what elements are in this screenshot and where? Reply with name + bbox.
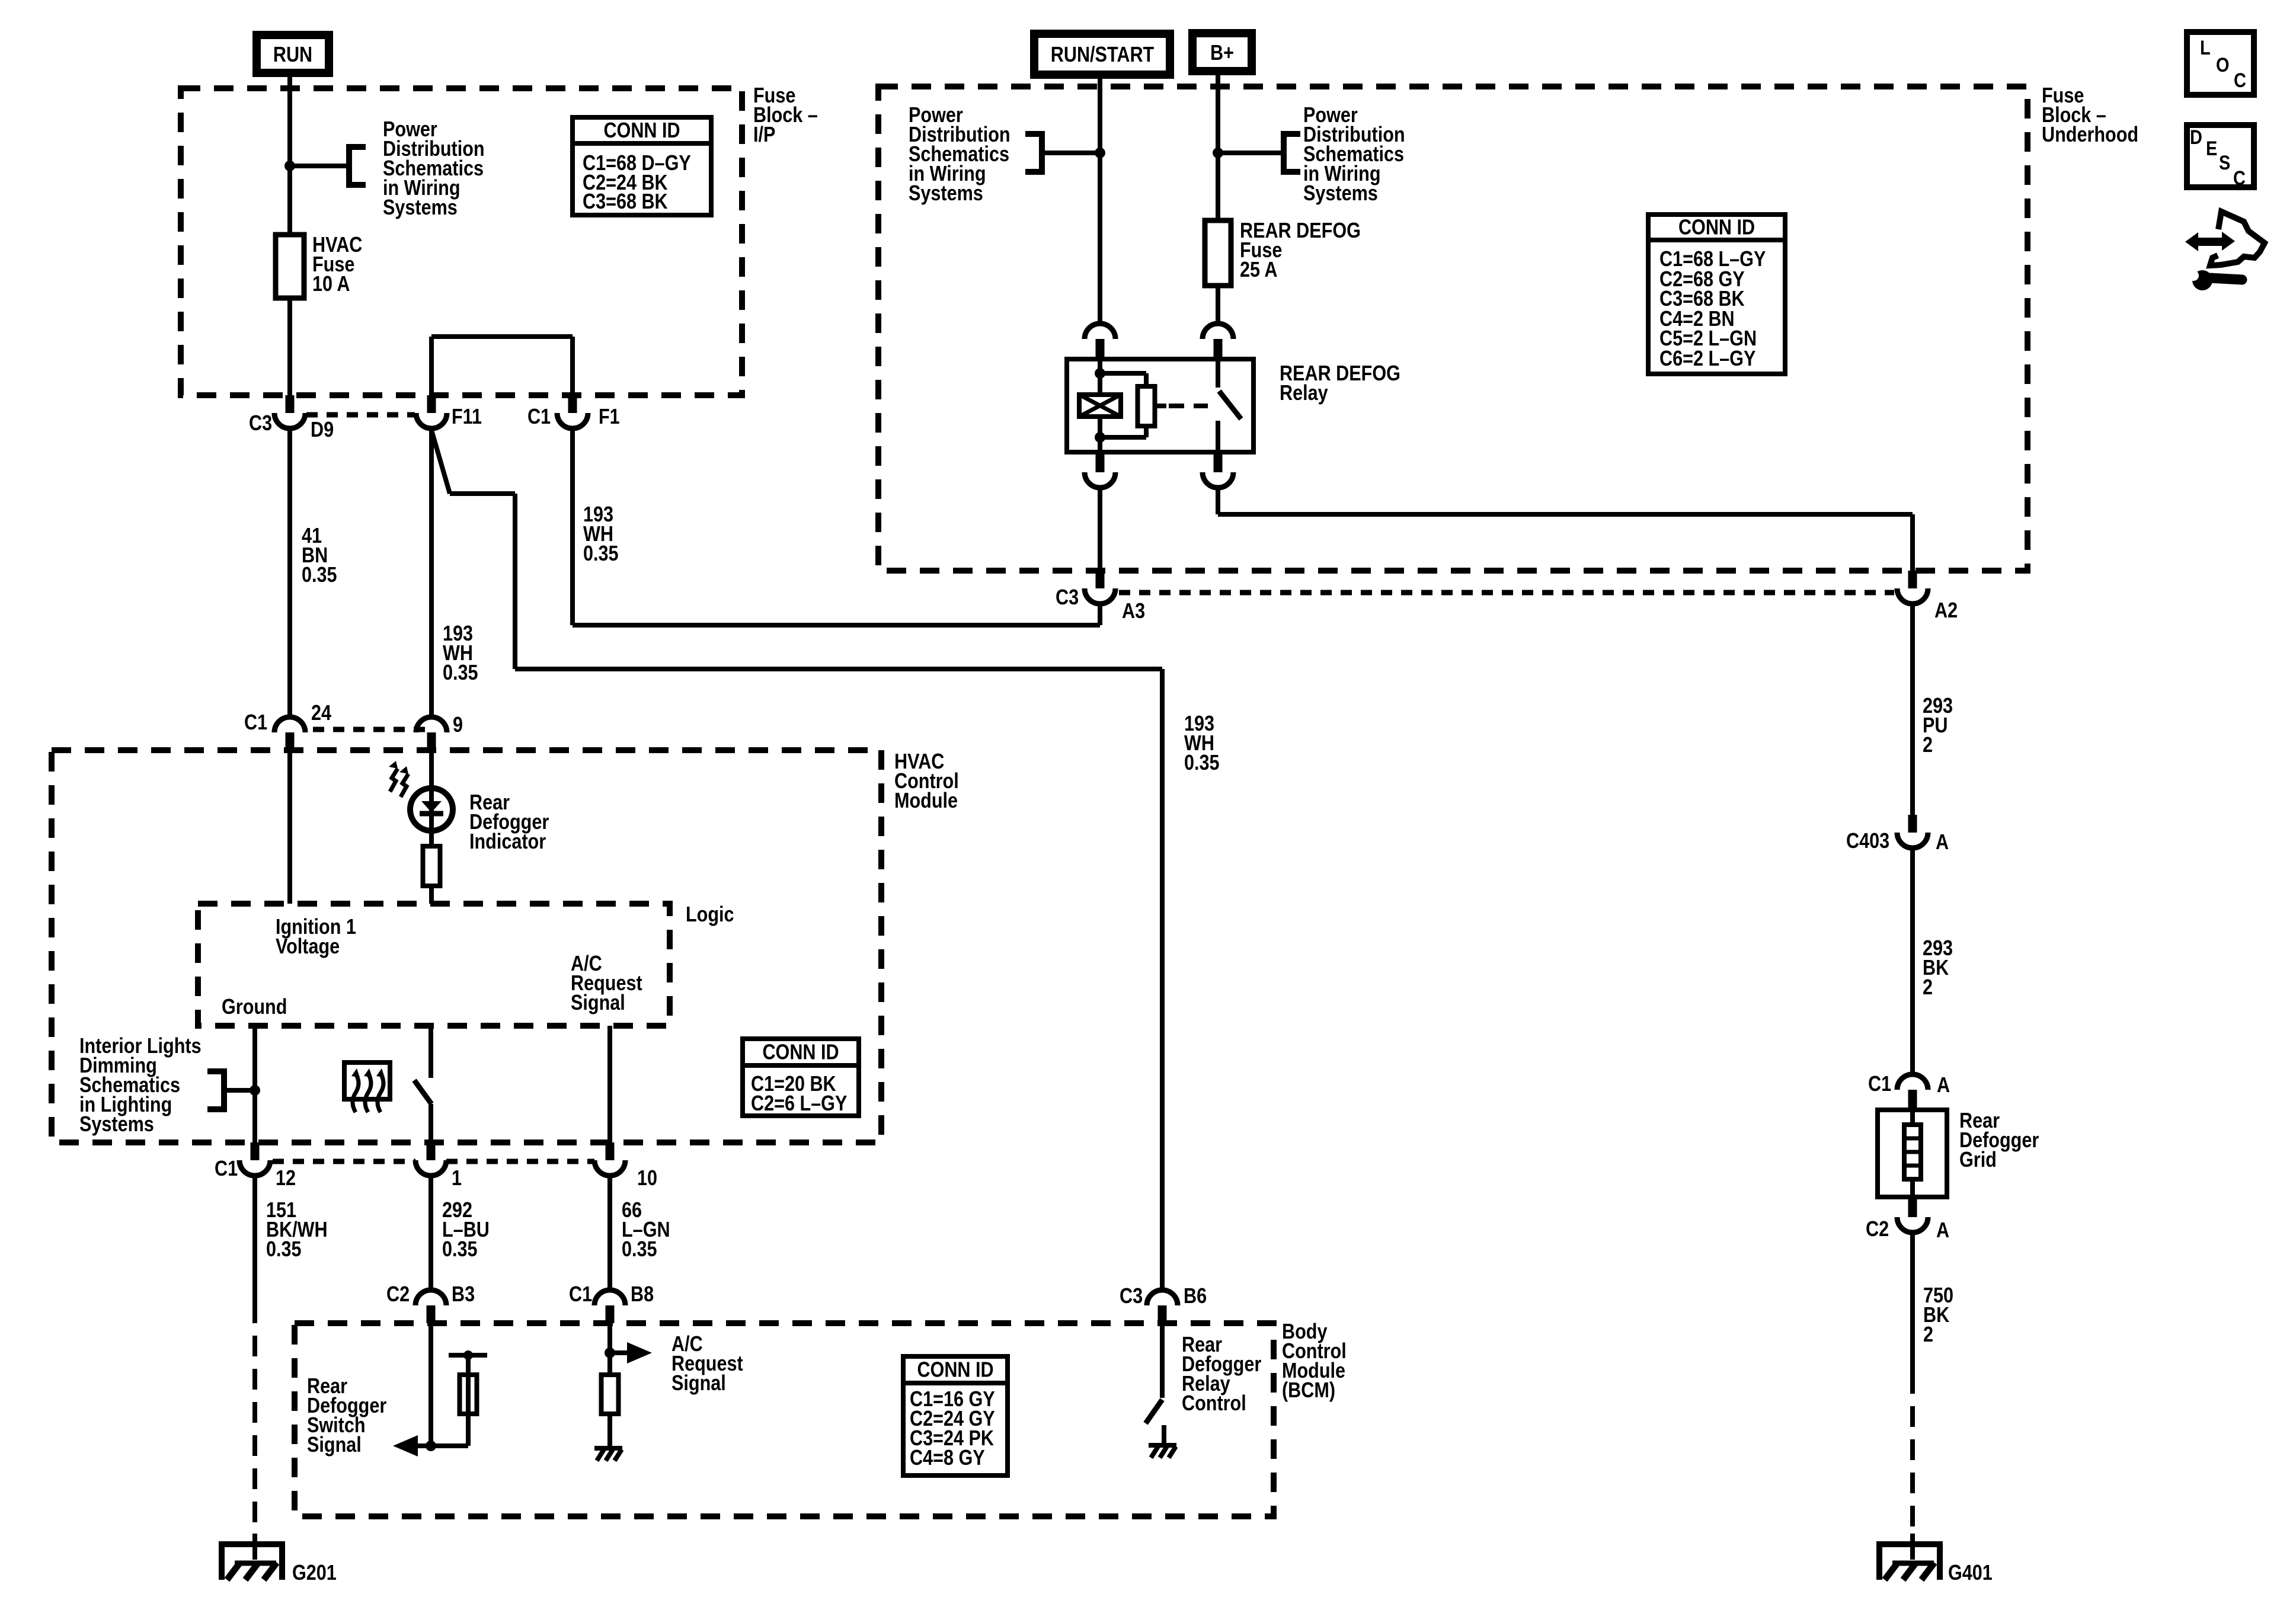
rear defogger grid box [1878, 1110, 1947, 1197]
connector C3 B6 [1147, 1290, 1178, 1305]
svg-text:C4=8 GY: C4=8 GY [910, 1446, 985, 1470]
node junction RUN/START feed [1095, 148, 1105, 158]
wire below A3 to horizontal [1098, 603, 1102, 625]
conn id table I/P [573, 117, 711, 215]
wire pin 9 to indicator [429, 750, 434, 846]
svg-text:(BCM): (BCM) [1282, 1379, 1335, 1403]
wire 292 L-BU pin 1 to B3 [428, 1176, 433, 1290]
fuse HVAC Fuse 10 A [276, 235, 304, 298]
relay REAR DEFOG Relay box [1067, 359, 1253, 452]
arrow switch signal to left [407, 1443, 431, 1448]
svg-text:CONN ID: CONN ID [603, 119, 680, 143]
svg-text:C1: C1 [569, 1283, 592, 1307]
svg-text:12: 12 [276, 1167, 296, 1190]
ground G201 [219, 1541, 284, 1547]
node switch signal junction [426, 1441, 436, 1451]
arrow A/C request to right [610, 1350, 632, 1355]
wire B3 to switch signal node [428, 1323, 433, 1446]
power feed box RUN [257, 35, 329, 73]
svg-text:RUN/START: RUN/START [1051, 43, 1155, 67]
conn id table HVAC [743, 1039, 859, 1116]
connector 10 [606, 1142, 615, 1160]
svg-text:0.35: 0.35 [302, 564, 337, 587]
svg-text:L: L [2200, 36, 2211, 59]
relay socket connector switch bottom [1214, 454, 1223, 472]
svg-text:CONN ID: CONN ID [762, 1041, 839, 1064]
wire resistor to logic box [429, 886, 434, 904]
chassis ground B8 [594, 1446, 622, 1451]
connector C1 F1 [568, 395, 577, 413]
connector C3 A3 [1096, 571, 1105, 588]
svg-text:B3: B3 [452, 1283, 475, 1307]
resistor indicator dropping [423, 846, 440, 886]
svg-text:C403: C403 [1846, 830, 1889, 853]
svg-text:E: E [2206, 137, 2217, 160]
connector C2 B3 [415, 1290, 446, 1305]
svg-text:C3: C3 [1120, 1285, 1143, 1308]
wire relay switch to A2 [1216, 488, 1220, 514]
svg-text:B+: B+ [1210, 41, 1234, 65]
svg-text:A3: A3 [1122, 600, 1145, 623]
switch rear defogger relay control [1160, 1323, 1165, 1398]
conn id table BCM [903, 1356, 1008, 1475]
wire junction to HVAC fuse [287, 166, 292, 235]
dotted connector line 24-9 [313, 727, 426, 732]
indicator diode triangle [421, 801, 442, 812]
svg-text:Systems: Systems [1303, 182, 1378, 206]
svg-text:C3: C3 [249, 412, 272, 436]
dotted connector line D9-F11 [306, 412, 415, 418]
wire ground from logic box [252, 1026, 257, 1142]
svg-text:O: O [2216, 53, 2229, 76]
svg-text:1: 1 [452, 1167, 462, 1190]
svg-text:B6: B6 [1184, 1285, 1207, 1308]
connector A2 [1908, 571, 1917, 588]
power feed box RUN/START [1034, 34, 1170, 75]
node junction on RUN feed [284, 161, 295, 171]
svg-text:CONN ID: CONN ID [1678, 216, 1755, 239]
svg-text:A: A [1936, 831, 1949, 854]
indicator diode bar [420, 811, 443, 817]
svg-text:10 A: 10 A [312, 273, 350, 296]
wire pin 24 to logic box [287, 750, 292, 904]
pull-up branch B3 [431, 1443, 468, 1448]
grid element resistor [1910, 1108, 1915, 1125]
fuse block I/P dashed box [181, 88, 742, 395]
relay socket connector coil bottom [1096, 454, 1105, 472]
svg-text:C2=6 L–GY: C2=6 L–GY [751, 1092, 847, 1116]
wire resistor to chassis ground B8 [607, 1414, 612, 1447]
svg-text:Signal: Signal [307, 1433, 362, 1457]
node relay coil top junction [1095, 368, 1105, 379]
svg-text:I/P: I/P [753, 123, 775, 147]
svg-text:Voltage: Voltage [276, 935, 340, 959]
connector 1 [427, 1142, 436, 1160]
svg-text:C1: C1 [527, 405, 551, 429]
svg-text:G201: G201 [292, 1561, 337, 1585]
wire fuse to relay switch [1216, 286, 1220, 324]
wire 293 BK C403 to grid C1 [1910, 848, 1915, 1074]
svg-text:0.35: 0.35 [266, 1238, 302, 1262]
svg-text:C1: C1 [244, 711, 267, 735]
wire A/C request logic to pin 10 [607, 1026, 612, 1142]
HVAC control module dashed box [52, 750, 881, 1142]
svg-text:Module: Module [894, 789, 958, 813]
node ground junction [250, 1085, 260, 1096]
off-page stub to Power Distribution (I/P) [290, 164, 347, 168]
connector C1 A grid [1897, 1074, 1928, 1090]
node relay coil bottom junction [1095, 432, 1105, 443]
wire relay coil to A3 [1098, 488, 1102, 571]
svg-text:D9: D9 [311, 418, 334, 442]
wire B+ to REAR DEFOG fuse [1216, 75, 1220, 220]
relay coil winding symbol [1079, 395, 1121, 417]
resistor pull-down B8 [607, 1353, 612, 1375]
wire 193 WH F1 to A3 [570, 428, 575, 625]
svg-text:A: A [1936, 1219, 1949, 1243]
power feed box B+ [1192, 33, 1252, 71]
svg-text:C2: C2 [386, 1283, 410, 1307]
icon DESC box [2187, 125, 2254, 187]
svg-text:D: D [2190, 126, 2202, 149]
dotted connector line A3-A2 [1119, 590, 1894, 596]
svg-text:9: 9 [453, 713, 463, 737]
heater icon box [344, 1062, 390, 1099]
svg-text:Grid: Grid [1959, 1148, 1997, 1172]
svg-text:S: S [2219, 151, 2230, 174]
connector C1 B8 [594, 1290, 625, 1305]
off-page stub Power Distribution right [1218, 151, 1281, 155]
svg-text:F1: F1 [599, 405, 620, 429]
wire 151 BK/WH to G201 [252, 1176, 257, 1323]
icon wrench and arrows [2185, 212, 2265, 265]
svg-text:24: 24 [311, 702, 331, 725]
connector C1 24 [274, 717, 305, 732]
svg-text:Signal: Signal [571, 991, 625, 1015]
svg-text:Systems: Systems [909, 182, 983, 206]
svg-text:RUN: RUN [273, 43, 312, 67]
wire RUN to junction [287, 77, 292, 166]
svg-text:F11: F11 [452, 405, 482, 429]
fuse block underhood dashed box [878, 87, 2028, 571]
svg-text:C6=2 L–GY: C6=2 L–GY [1659, 347, 1755, 371]
relay socket connector coil top [1085, 324, 1115, 339]
svg-text:A2: A2 [1934, 599, 1958, 623]
svg-text:Systems: Systems [383, 196, 458, 220]
wire RUN/START to relay coil [1098, 79, 1102, 324]
svg-text:0.35: 0.35 [1184, 751, 1220, 775]
svg-text:G401: G401 [1948, 1561, 1993, 1585]
ground G401 [1877, 1541, 1942, 1547]
svg-text:Systems: Systems [79, 1113, 154, 1137]
svg-text:Underhood: Underhood [2042, 123, 2138, 147]
relay parallel resistor branch [1100, 371, 1146, 376]
body control module dashed box [295, 1323, 1274, 1516]
wire 41 BN circuit D9 to pin 24 [287, 428, 292, 717]
svg-text:Indicator: Indicator [469, 830, 546, 854]
svg-text:0.35: 0.35 [583, 542, 619, 566]
resistor pull-up B3 [460, 1375, 477, 1414]
svg-text:A: A [1937, 1074, 1950, 1097]
connector F11 [427, 395, 436, 413]
svg-text:B8: B8 [631, 1283, 654, 1307]
fuse REAR DEFOG Fuse 25 A [1205, 220, 1231, 286]
relay coil wire top [1098, 357, 1102, 395]
svg-text:2: 2 [1923, 976, 1933, 1000]
svg-text:0.35: 0.35 [442, 1238, 478, 1262]
svg-text:2: 2 [1923, 734, 1933, 757]
svg-text:0.35: 0.35 [443, 661, 478, 685]
heater icon waves [351, 1068, 385, 1112]
svg-text:C: C [2234, 69, 2246, 92]
logic dashed box [198, 904, 670, 1026]
connector C2 A grid [1908, 1199, 1917, 1217]
LED light arrows [390, 769, 408, 797]
svg-text:C1: C1 [215, 1157, 238, 1181]
relay switch lower contact [1216, 421, 1220, 454]
wire 193 WH branch F11 to BCM B6 [431, 430, 450, 494]
svg-text:C1: C1 [1868, 1073, 1891, 1096]
svg-text:Ground: Ground [222, 996, 287, 1019]
svg-text:Signal: Signal [671, 1372, 726, 1395]
wire 193 WH F11 to pin 9 [429, 428, 434, 717]
connector C1 12 [251, 1142, 260, 1160]
svg-text:Relay: Relay [1280, 382, 1328, 405]
node junction B+ feed [1213, 148, 1223, 158]
relay resistor to armature tick [1155, 404, 1166, 408]
wire 293 PU A2 to C403 [1910, 603, 1915, 815]
connector C3 D9 [286, 395, 295, 413]
wire 750 BK to G401 [1910, 1233, 1915, 1394]
svg-text:2: 2 [1923, 1323, 1933, 1347]
node A/C request junction [605, 1347, 615, 1358]
dotted connector line 12-1-10 [273, 1159, 415, 1164]
svg-text:Control: Control [1182, 1392, 1246, 1416]
off-page stub Power Distribution left [1044, 151, 1100, 155]
svg-text:25 A: 25 A [1240, 258, 1277, 282]
switch defogger in HVAC [428, 1026, 433, 1078]
connector C403 A [1908, 815, 1917, 833]
conn id table underhood [1648, 215, 1785, 374]
wire B8 to A/C node [607, 1323, 612, 1353]
svg-text:C2: C2 [1866, 1218, 1889, 1241]
svg-text:10: 10 [637, 1167, 657, 1190]
relay switch blade [1219, 391, 1241, 419]
relay socket connector switch top [1203, 324, 1233, 339]
svg-text:Logic: Logic [686, 903, 734, 927]
wire 66 L-GN pin 10 to B8 [607, 1176, 612, 1290]
relay mechanical link dashes [1169, 404, 1208, 408]
icon LOC box [2187, 32, 2254, 95]
svg-text:C3: C3 [1056, 586, 1079, 610]
wire HVAC fuse to connector D9 [287, 298, 292, 395]
chassis ground BCM switch [1149, 1443, 1176, 1448]
off-page stub Interior Lights Dimming [224, 1088, 255, 1093]
svg-text:C3=68 BK: C3=68 BK [583, 190, 668, 214]
relay coil wire bottom [1098, 417, 1102, 454]
indicator LED circle [410, 788, 453, 831]
relay switch fixed contact [1216, 357, 1220, 388]
svg-text:C: C [2233, 167, 2246, 190]
svg-text:0.35: 0.35 [622, 1238, 657, 1262]
svg-text:CONN ID: CONN ID [917, 1358, 993, 1382]
wire inside I/P block to F11 [429, 337, 434, 395]
connector 9 [416, 717, 447, 732]
